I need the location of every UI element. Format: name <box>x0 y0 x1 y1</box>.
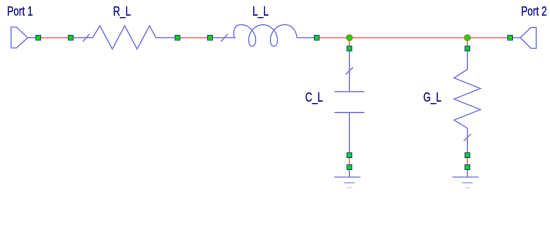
svg-text:Port 1: Port 1 <box>7 5 33 19</box>
svg-text:L_L: L_L <box>253 5 269 19</box>
svg-text:R_L: R_L <box>113 5 131 19</box>
svg-text:G_L: G_L <box>423 91 441 105</box>
svg-text:C_L: C_L <box>305 91 323 105</box>
svg-text:Port 2: Port 2 <box>521 5 547 19</box>
